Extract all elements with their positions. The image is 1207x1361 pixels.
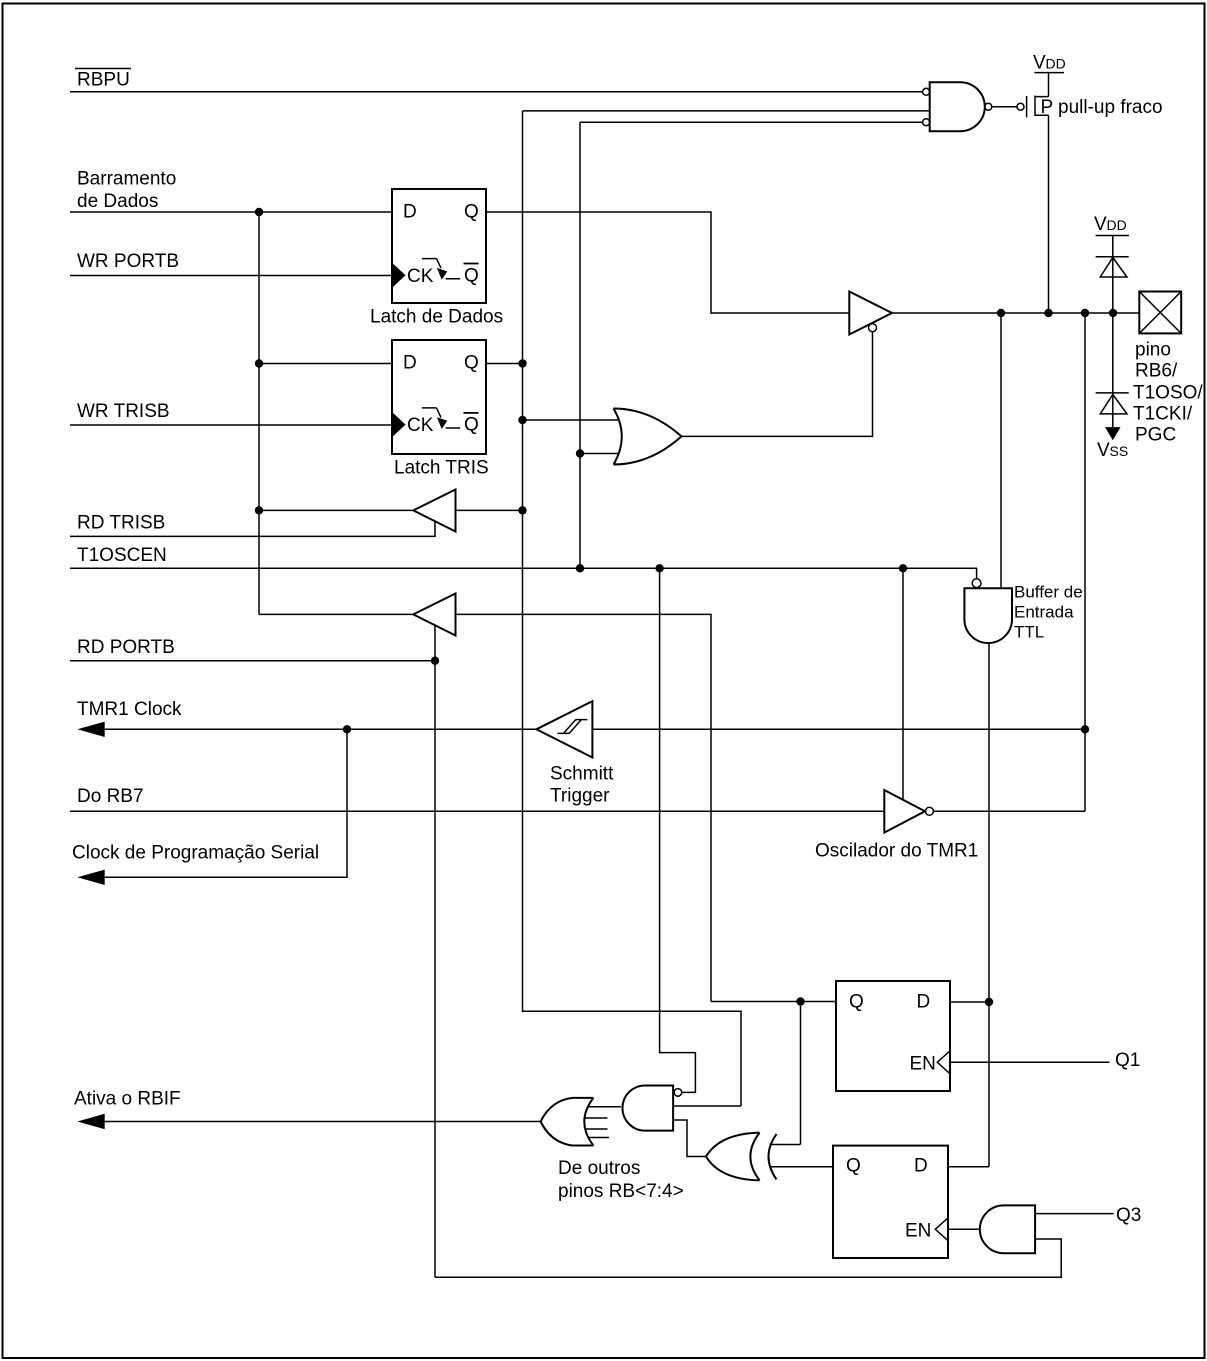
wire pin line: [892, 312, 1139, 314]
inverter U9 TMR1 oscillator: [884, 790, 933, 833]
svg-text:RB6/: RB6/: [1135, 361, 1178, 382]
junction pin line TTL tap: [997, 309, 1005, 317]
wire TRIS D input: [259, 363, 392, 365]
node Do RB7 label: [77, 786, 144, 807]
wire U16 bottom input: [435, 1239, 1061, 1277]
junction TMR1 serial tap: [343, 725, 351, 733]
latch U2 Latch TRIS: [392, 340, 486, 454]
power VDD symbol right: [1094, 214, 1129, 236]
svg-text:T1CKI/: T1CKI/: [1133, 404, 1193, 425]
junction data bus: [255, 208, 263, 216]
node Ativa o RBIF label: [74, 1089, 181, 1110]
svg-text:Clock de Programação Serial: Clock de Programação Serial: [72, 843, 319, 864]
diode D2 clamp to VSS: [1096, 313, 1129, 427]
wire U14 top input from T1OSCEN: [660, 568, 696, 1092]
svg-text:EN: EN: [905, 1221, 931, 1242]
ground VSS symbol: [1097, 427, 1128, 461]
svg-text:Entrada: Entrada: [1014, 603, 1074, 622]
pin RB6 box: [1139, 292, 1181, 334]
node WR PORTB label: [77, 251, 179, 272]
wire U12 D input: [948, 1166, 989, 1168]
junction OR top input: [518, 416, 526, 424]
svg-text:RD TRISB: RD TRISB: [77, 513, 165, 534]
or-gate U5 tristate control: [614, 409, 682, 465]
latch U11 current state: [836, 981, 950, 1091]
label Schmitt Trigger: [550, 764, 614, 807]
wire data bus vertical: [258, 212, 260, 614]
arrow Ativa o RBIF: [77, 1114, 104, 1129]
svg-text:pino: pino: [1135, 340, 1171, 361]
junction U6 input: [518, 506, 526, 514]
node WR TRISB label: [77, 401, 170, 422]
svg-text:Barramento: Barramento: [77, 169, 176, 190]
wire U11 Q to XOR: [800, 1002, 802, 1145]
wire RBPU to NAND top input: [70, 91, 923, 93]
and gate U10 TTL input buffer: [964, 579, 1012, 643]
junction pin line pull-up: [1044, 309, 1052, 317]
svg-text:Oscilador do TMR1: Oscilador do TMR1: [815, 841, 978, 862]
wire NAND middle input: [523, 110, 930, 112]
svg-text:EN: EN: [910, 1054, 936, 1075]
svg-text:P: P: [1041, 97, 1054, 118]
junction U11 Q: [796, 997, 804, 1005]
power VDD symbol top: [1033, 53, 1066, 97]
svg-text:pinos RB<7:4>: pinos RB<7:4>: [558, 1181, 684, 1202]
schmitt trigger U8: [536, 701, 592, 757]
svg-text:Trigger: Trigger: [550, 786, 610, 807]
wire oscillator enable: [902, 568, 904, 800]
wire oscillator output: [933, 810, 1085, 812]
wire Do RB7: [70, 810, 884, 812]
svg-text:Q: Q: [846, 1156, 861, 1177]
wire U6 input: [456, 509, 523, 511]
wire RBIF enable long vertical: [434, 661, 436, 1278]
node RD PORTB label: [77, 637, 175, 658]
svg-text:D: D: [914, 1156, 928, 1177]
svg-text:T1OSO/: T1OSO/: [1133, 383, 1203, 404]
svg-text:TMR1 Clock: TMR1 Clock: [77, 699, 182, 720]
node TMR1 Clock label: [77, 699, 182, 720]
node Clock de Programacao Serial label: [72, 843, 319, 864]
junction RD PORTB: [431, 657, 439, 665]
svg-text:Q3: Q3: [1116, 1205, 1141, 1226]
wire U11 Q output: [711, 1001, 836, 1003]
wire U12 Q to XOR: [770, 1166, 833, 1168]
junction T1OSCEN at 660: [655, 564, 663, 572]
svg-text:CK: CK: [407, 415, 434, 436]
wire NAND bottom input vertical: [579, 122, 581, 568]
svg-text:WR PORTB: WR PORTB: [77, 251, 179, 272]
svg-text:Q: Q: [849, 992, 864, 1013]
svg-text:SS: SS: [1110, 443, 1129, 459]
wire TTL input from pin: [1000, 313, 1002, 587]
wire XOR top input: [770, 1144, 801, 1146]
svg-text:Schmitt: Schmitt: [550, 764, 614, 785]
wire U16 output to EN: [948, 1228, 980, 1230]
buffer U6 RD TRISB tristate: [413, 490, 455, 532]
svg-text:TTL: TTL: [1014, 623, 1044, 642]
junction U11 D: [985, 998, 993, 1006]
wire NAND bottom input: [580, 121, 923, 123]
wire U11 EN from Q1: [950, 1061, 1110, 1063]
svg-text:V: V: [1094, 214, 1107, 235]
svg-text:Latch TRIS: Latch TRIS: [394, 458, 489, 479]
wire RD PORTB enable: [70, 625, 435, 661]
svg-text:de Dados: de Dados: [77, 191, 158, 212]
junction TRIS Q: [518, 359, 526, 367]
wire TTL output vertical: [988, 643, 990, 1167]
xor gate U13 change detector: [706, 1133, 777, 1181]
wire U7 output: [259, 613, 413, 615]
latch U12 last state: [833, 1146, 948, 1258]
wire schmitt input: [592, 728, 1085, 730]
junction T1OSCEN at 903: [899, 564, 907, 572]
wire data bus to latch D: [70, 211, 392, 213]
label De outros pinos RB(7:4): [558, 1158, 684, 1202]
junction pin line schmitt tap: [1081, 309, 1089, 317]
svg-text:Q: Q: [464, 266, 479, 287]
svg-text:V: V: [1033, 53, 1046, 74]
latch U1 Latch de Dados: [392, 189, 486, 303]
junction U6 output: [255, 506, 263, 514]
wire clock serial: [105, 729, 347, 877]
svg-text:Q: Q: [464, 415, 479, 436]
svg-text:Ativa o RBIF: Ativa o RBIF: [74, 1089, 181, 1110]
wire U6 output: [259, 509, 413, 511]
buffer U7 RD PORTB tristate: [413, 594, 455, 636]
wire RD TRISB enable: [70, 521, 435, 536]
svg-text:Do RB7: Do RB7: [77, 786, 144, 807]
wire T1OSCEN: [70, 568, 977, 578]
wire TRIS Q output: [486, 363, 523, 365]
and gate U14 RBIF detect: [622, 1086, 681, 1131]
junction TRIS D input: [255, 359, 263, 367]
transistor Q1 P-MOS pull-up: [1017, 96, 1053, 118]
wire NAND output to PMOS gate: [992, 106, 1017, 108]
wire U11 D input: [950, 1001, 989, 1003]
wire U7 input: [456, 614, 712, 1001]
svg-text:Q: Q: [464, 202, 479, 223]
svg-text:Q1: Q1: [1115, 1050, 1140, 1071]
arrow TMR1 Clock: [77, 722, 104, 737]
node T1OSCEN label: [77, 545, 167, 566]
svg-text:V: V: [1097, 440, 1110, 461]
svg-text:Buffer de: Buffer de: [1014, 583, 1083, 602]
arrow clock serial: [77, 870, 104, 885]
and gate U16 Q3 enable: [980, 1205, 1035, 1253]
wire XOR output: [673, 1120, 706, 1157]
buffer U4 output driver: [849, 292, 892, 335]
svg-text:Latch de Dados: Latch de Dados: [370, 307, 503, 328]
nand gate U3 (pull-up control): [923, 82, 992, 131]
svg-text:PGC: PGC: [1135, 425, 1176, 446]
wire pin to schmitt vertical: [1084, 313, 1086, 811]
wire TRIS net vertical: [523, 111, 742, 1106]
wire TMR1 Clock: [105, 728, 537, 730]
node RD TRISB label: [77, 513, 165, 534]
svg-text:De outros: De outros: [558, 1158, 640, 1179]
wire U16 top input from Q3: [1035, 1213, 1114, 1215]
svg-text:CK: CK: [407, 266, 434, 287]
svg-text:DD: DD: [1046, 56, 1066, 72]
diode D1 clamp to VDD: [1096, 236, 1129, 314]
svg-text:DD: DD: [1107, 217, 1127, 233]
wire U14 middle input: [673, 1105, 741, 1107]
svg-text:pull-up fraco: pull-up fraco: [1058, 97, 1163, 118]
wire OR top input: [523, 419, 620, 421]
svg-text:RD PORTB: RD PORTB: [77, 637, 175, 658]
wire PMOS drain to pin line: [1048, 115, 1050, 313]
wire WR PORTB: [70, 275, 392, 277]
junction OR bottom input: [576, 449, 584, 457]
label Buffer de Entrada TTL: [1014, 583, 1083, 642]
wire U14 output: [588, 1106, 621, 1108]
node RBPU label: [75, 69, 131, 91]
wire latch Q to output driver: [486, 212, 849, 313]
svg-text:D: D: [917, 992, 931, 1013]
svg-text:Q: Q: [464, 353, 479, 374]
wire WR TRISB: [70, 424, 392, 426]
wire driver enable from OR gate: [682, 332, 873, 437]
svg-text:WR TRISB: WR TRISB: [77, 401, 170, 422]
svg-text:RBPU: RBPU: [77, 70, 130, 91]
wire Ativa o RBIF: [105, 1121, 541, 1123]
label pino RB6/T1OSO/T1CKI/PGC: [1133, 340, 1203, 446]
svg-text:D: D: [403, 202, 417, 223]
junction pin line clamp: [1109, 309, 1117, 317]
junction schmitt input: [1081, 725, 1089, 733]
junction T1OSCEN at 580: [576, 564, 584, 572]
or gate U15 RBIF set: [541, 1098, 609, 1146]
node Barramento de Dados label: [77, 169, 176, 213]
wire OR bottom input: [580, 453, 619, 455]
svg-text:D: D: [403, 353, 417, 374]
svg-text:T1OSCEN: T1OSCEN: [77, 545, 167, 566]
